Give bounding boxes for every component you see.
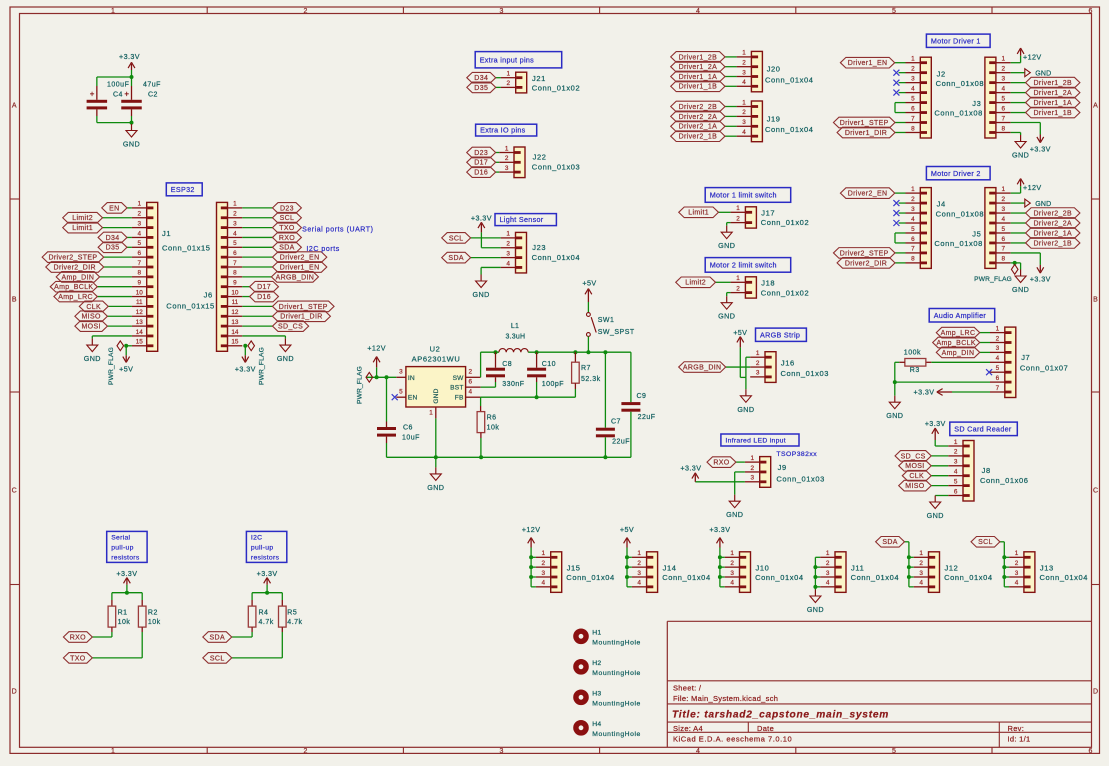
svg-text:3: 3 — [742, 119, 746, 126]
svg-text:D17: D17 — [474, 160, 488, 167]
svg-text:Driver2_2B: Driver2_2B — [1033, 210, 1072, 217]
svg-text:H2: H2 — [592, 660, 601, 667]
svg-text:Motor 2 limit switch: Motor 2 limit switch — [710, 261, 777, 270]
svg-text:Driver1_1B: Driver1_1B — [679, 84, 718, 91]
svg-text:Conn_01x08: Conn_01x08 — [936, 79, 985, 88]
svg-text:Light Sensor: Light Sensor — [500, 215, 544, 224]
svg-text:RXO: RXO — [279, 235, 295, 242]
svg-text:7: 7 — [233, 260, 237, 267]
svg-text:J14: J14 — [663, 563, 677, 572]
svg-text:+12V: +12V — [367, 344, 386, 353]
svg-text:Limit1: Limit1 — [72, 225, 93, 232]
svg-text:J15: J15 — [567, 563, 581, 572]
svg-text:GND: GND — [927, 511, 944, 520]
svg-text:+3.3V: +3.3V — [119, 52, 140, 61]
svg-text:J9: J9 — [778, 463, 787, 472]
svg-text:GND: GND — [84, 354, 101, 363]
svg-text:2: 2 — [138, 211, 142, 218]
svg-text:Driver1_EN: Driver1_EN — [280, 264, 320, 271]
svg-text:SCL: SCL — [978, 539, 993, 546]
svg-text:1: 1 — [138, 201, 142, 208]
svg-text:1: 1 — [233, 201, 237, 208]
svg-text:3: 3 — [506, 250, 510, 257]
svg-text:Limit2: Limit2 — [72, 215, 93, 222]
svg-text:KiCad E.D.A. eeschema 7.0.10: KiCad E.D.A. eeschema 7.0.10 — [673, 734, 792, 743]
svg-text:3.3uH: 3.3uH — [506, 334, 526, 341]
svg-text:4: 4 — [1015, 580, 1019, 587]
svg-text:MountingHole: MountingHole — [592, 731, 641, 738]
svg-text:D: D — [12, 689, 17, 696]
svg-text:GND: GND — [718, 241, 735, 250]
svg-text:1: 1 — [736, 205, 740, 212]
svg-text:Size: A4: Size: A4 — [673, 724, 703, 733]
svg-text:+5V: +5V — [119, 365, 133, 374]
svg-text:4: 4 — [1002, 216, 1006, 223]
svg-text:1: 1 — [111, 748, 115, 755]
svg-text:R2: R2 — [148, 609, 158, 616]
svg-text:D17: D17 — [257, 284, 271, 291]
svg-text:J23: J23 — [532, 243, 546, 252]
svg-text:7: 7 — [1002, 246, 1006, 253]
svg-text:C: C — [12, 488, 17, 495]
svg-text:D16: D16 — [257, 294, 271, 301]
svg-text:J13: J13 — [1040, 563, 1054, 572]
svg-text:2: 2 — [507, 80, 511, 87]
svg-text:1: 1 — [1002, 186, 1006, 193]
svg-text:3: 3 — [742, 69, 746, 76]
svg-text:SD Card Reader: SD Card Reader — [954, 424, 1012, 433]
svg-text:Extra IO pins: Extra IO pins — [480, 126, 526, 135]
svg-text:1: 1 — [742, 99, 746, 106]
svg-text:Amp_BCLK: Amp_BCLK — [54, 284, 93, 291]
svg-text:12: 12 — [231, 309, 239, 316]
svg-text:3: 3 — [1002, 206, 1006, 213]
svg-text:+: + — [124, 90, 129, 99]
svg-text:SCL: SCL — [280, 215, 295, 222]
svg-text:resistors: resistors — [251, 554, 280, 561]
svg-text:Conn_01x02: Conn_01x02 — [761, 218, 810, 227]
svg-text:Driver1_1B: Driver1_1B — [1033, 110, 1072, 117]
svg-text:3: 3 — [505, 165, 509, 172]
svg-text:Driver2_EN: Driver2_EN — [280, 255, 320, 262]
svg-text:8: 8 — [233, 270, 237, 277]
svg-text:R3: R3 — [910, 367, 920, 374]
svg-text:J20: J20 — [767, 65, 781, 74]
svg-text:SDA: SDA — [279, 245, 294, 252]
svg-text:J6: J6 — [204, 291, 213, 300]
svg-text:Conn_01x08: Conn_01x08 — [934, 108, 983, 117]
svg-text:R4: R4 — [259, 609, 269, 616]
svg-text:+3.3V: +3.3V — [471, 214, 492, 223]
svg-text:J5: J5 — [972, 229, 981, 238]
svg-text:C: C — [1093, 488, 1098, 495]
svg-text:ARGB_DIN: ARGB_DIN — [276, 274, 315, 281]
svg-text:+3.3V: +3.3V — [1030, 145, 1051, 154]
svg-text:6: 6 — [1089, 8, 1093, 15]
svg-text:Driver1_2A: Driver1_2A — [1033, 90, 1072, 97]
svg-text:RXO: RXO — [713, 460, 729, 467]
svg-text:Driver2_STEP: Driver2_STEP — [48, 255, 97, 262]
svg-text:6: 6 — [996, 375, 1000, 382]
svg-text:2: 2 — [751, 465, 755, 472]
svg-text:SCL: SCL — [210, 655, 225, 662]
svg-text:J19: J19 — [767, 114, 781, 123]
svg-text:2: 2 — [1002, 196, 1006, 203]
svg-text:pull-up: pull-up — [111, 545, 134, 552]
svg-text:MOSI: MOSI — [905, 463, 924, 470]
svg-text:BST: BST — [450, 385, 463, 392]
svg-text:Driver2_2B: Driver2_2B — [679, 104, 718, 111]
svg-text:GND: GND — [1035, 71, 1051, 78]
svg-text:Driver1_DIR: Driver1_DIR — [280, 314, 322, 321]
svg-text:5: 5 — [233, 240, 237, 247]
svg-text:4.7k: 4.7k — [259, 619, 274, 626]
svg-text:C7: C7 — [611, 418, 621, 425]
svg-text:3: 3 — [399, 369, 403, 376]
svg-text:100uF: 100uF — [107, 82, 129, 89]
svg-text:2: 2 — [1015, 560, 1019, 567]
svg-text:Driver2_2A: Driver2_2A — [679, 114, 718, 121]
svg-text:ARGB_DIN: ARGB_DIN — [683, 364, 722, 371]
svg-text:C10: C10 — [542, 361, 556, 368]
svg-text:1: 1 — [1015, 550, 1019, 557]
svg-text:GND: GND — [726, 510, 743, 519]
svg-text:4: 4 — [954, 469, 958, 476]
svg-text:Audio Amplifier: Audio Amplifier — [934, 311, 987, 320]
svg-text:Extra input pins: Extra input pins — [480, 55, 534, 64]
svg-text:U2: U2 — [430, 345, 441, 354]
svg-text:MountingHole: MountingHole — [592, 670, 641, 677]
svg-text:4: 4 — [542, 580, 546, 587]
svg-text:3: 3 — [138, 220, 142, 227]
svg-text:3: 3 — [826, 570, 830, 577]
svg-text:J3: J3 — [972, 99, 981, 108]
svg-text:J11: J11 — [851, 563, 864, 572]
svg-text:Motor Driver 2: Motor Driver 2 — [931, 169, 981, 178]
svg-text:J17: J17 — [761, 208, 775, 217]
svg-text:4: 4 — [996, 355, 1000, 362]
svg-text:2: 2 — [304, 748, 308, 755]
svg-text:4: 4 — [1002, 85, 1006, 92]
svg-text:H4: H4 — [592, 721, 601, 728]
svg-text:+3.3V: +3.3V — [914, 388, 935, 397]
svg-text:Driver1_2A: Driver1_2A — [679, 64, 718, 71]
svg-text:10: 10 — [136, 289, 144, 296]
svg-text:Motor 1 limit switch: Motor 1 limit switch — [710, 191, 777, 200]
svg-text:Conn_01x04: Conn_01x04 — [944, 573, 993, 582]
svg-text:3: 3 — [1015, 570, 1019, 577]
svg-text:R7: R7 — [581, 365, 591, 372]
svg-text:5: 5 — [1002, 226, 1006, 233]
svg-text:Conn_01x04: Conn_01x04 — [662, 573, 711, 582]
svg-text:GND: GND — [427, 483, 444, 492]
svg-text:22uF: 22uF — [612, 438, 630, 445]
svg-text:AP62301WU: AP62301WU — [412, 355, 461, 364]
svg-text:4: 4 — [138, 230, 142, 237]
svg-text:Driver1_EN: Driver1_EN — [848, 60, 888, 67]
svg-text:A: A — [1093, 103, 1098, 110]
svg-text:4: 4 — [919, 580, 923, 587]
svg-text:Conn_01x02: Conn_01x02 — [761, 289, 810, 298]
svg-text:4: 4 — [911, 85, 915, 92]
svg-text:6: 6 — [954, 488, 958, 495]
svg-text:PWR_FLAG: PWR_FLAG — [259, 347, 266, 385]
svg-text:+: + — [90, 90, 95, 99]
svg-text:6: 6 — [911, 105, 915, 112]
svg-text:10k: 10k — [148, 619, 161, 626]
svg-text:L1: L1 — [511, 323, 519, 330]
svg-text:J2: J2 — [937, 69, 946, 78]
svg-text:14: 14 — [136, 329, 144, 336]
svg-text:2: 2 — [736, 215, 740, 222]
svg-text:Conn_01x04: Conn_01x04 — [765, 76, 814, 85]
svg-text:MOSI: MOSI — [81, 324, 100, 331]
svg-text:File: Main_System.kicad_sch: File: Main_System.kicad_sch — [673, 694, 778, 703]
svg-text:resistors: resistors — [111, 554, 140, 561]
svg-text:Conn_01x04: Conn_01x04 — [566, 573, 615, 582]
svg-text:Driver2_EN: Driver2_EN — [848, 191, 888, 198]
svg-text:3: 3 — [637, 570, 641, 577]
svg-text:1: 1 — [506, 231, 510, 238]
svg-text:1: 1 — [919, 550, 923, 557]
svg-text:4: 4 — [742, 129, 746, 136]
svg-text:Motor Driver 1: Motor Driver 1 — [931, 36, 981, 45]
svg-text:13: 13 — [231, 319, 239, 326]
svg-text:EN: EN — [109, 205, 119, 212]
svg-text:7: 7 — [911, 246, 915, 253]
svg-text:3: 3 — [1002, 75, 1006, 82]
svg-text:J1: J1 — [162, 229, 171, 238]
svg-text:5: 5 — [954, 478, 958, 485]
svg-text:Conn_01x04: Conn_01x04 — [532, 253, 581, 262]
svg-text:R5: R5 — [287, 609, 297, 616]
svg-text:GND: GND — [277, 354, 294, 363]
svg-text:3: 3 — [542, 570, 546, 577]
svg-text:pull-up: pull-up — [251, 545, 274, 552]
svg-text:+12V: +12V — [1023, 183, 1042, 192]
svg-text:8: 8 — [1002, 256, 1006, 263]
svg-text:330nF: 330nF — [502, 381, 524, 388]
svg-text:Conn_01x06: Conn_01x06 — [980, 476, 1029, 485]
svg-text:Date: Date — [757, 724, 774, 733]
svg-text:TXO: TXO — [70, 655, 86, 662]
svg-text:Conn_01x03: Conn_01x03 — [781, 369, 830, 378]
svg-text:1: 1 — [542, 550, 546, 557]
svg-text:C8: C8 — [502, 361, 512, 368]
svg-text:+3.3V: +3.3V — [257, 569, 278, 578]
svg-text:D35: D35 — [474, 85, 488, 92]
svg-text:GND: GND — [1012, 151, 1029, 160]
svg-text:5: 5 — [996, 365, 1000, 372]
svg-text:3: 3 — [233, 220, 237, 227]
svg-text:1: 1 — [637, 550, 641, 557]
svg-text:+5V: +5V — [582, 279, 596, 288]
svg-text:SW_SPST: SW_SPST — [598, 329, 635, 336]
svg-text:1: 1 — [742, 50, 746, 57]
svg-text:Driver2_1A: Driver2_1A — [679, 124, 718, 131]
svg-text:3: 3 — [751, 475, 755, 482]
svg-text:9: 9 — [138, 280, 142, 287]
svg-text:Conn_01x07: Conn_01x07 — [1020, 364, 1069, 373]
svg-text:4: 4 — [730, 580, 734, 587]
svg-text:C9: C9 — [637, 393, 647, 400]
svg-text:Conn_01x04: Conn_01x04 — [755, 573, 804, 582]
svg-text:4: 4 — [911, 216, 915, 223]
svg-text:10uF: 10uF — [402, 435, 420, 442]
svg-text:IN: IN — [408, 375, 415, 382]
svg-text:Conn_01x04: Conn_01x04 — [1040, 573, 1089, 582]
svg-text:C6: C6 — [403, 425, 413, 432]
svg-text:GND: GND — [718, 312, 735, 321]
svg-text:J21: J21 — [532, 74, 546, 83]
svg-text:3: 3 — [500, 8, 504, 15]
svg-text:Conn_01x15: Conn_01x15 — [166, 301, 215, 310]
svg-text:6: 6 — [911, 236, 915, 243]
svg-text:H1: H1 — [592, 630, 601, 637]
svg-text:Driver2_STEP: Driver2_STEP — [840, 250, 889, 257]
svg-text:4: 4 — [233, 230, 237, 237]
svg-text:2: 2 — [542, 560, 546, 567]
svg-text:6: 6 — [1002, 105, 1006, 112]
svg-text:6: 6 — [469, 379, 473, 386]
svg-text:SDA: SDA — [448, 255, 463, 262]
svg-text:Driver2_DIR: Driver2_DIR — [54, 264, 96, 271]
svg-text:8: 8 — [1002, 125, 1006, 132]
svg-text:Amp_LRC: Amp_LRC — [58, 294, 93, 301]
svg-text:1: 1 — [736, 275, 740, 282]
svg-text:4: 4 — [637, 580, 641, 587]
svg-text:Serial ports (UART): Serial ports (UART) — [302, 227, 373, 234]
svg-text:10k: 10k — [118, 619, 131, 626]
svg-text:Rev:: Rev: — [1008, 724, 1025, 733]
svg-text:22uF: 22uF — [638, 414, 656, 421]
svg-text:52.3k: 52.3k — [581, 376, 601, 383]
svg-text:GND: GND — [807, 605, 824, 614]
svg-text:C4: C4 — [113, 91, 123, 98]
svg-text:J7: J7 — [1021, 353, 1030, 362]
svg-text:Driver1_STEP: Driver1_STEP — [840, 120, 889, 127]
svg-text:5: 5 — [1002, 95, 1006, 102]
svg-text:5: 5 — [911, 95, 915, 102]
svg-text:Serial: Serial — [111, 535, 130, 542]
svg-text:2: 2 — [756, 360, 760, 367]
svg-text:Conn_01x04: Conn_01x04 — [851, 573, 900, 582]
svg-text:Title: tarshad2_capstone_main_: Title: tarshad2_capstone_main_system — [672, 710, 889, 721]
svg-text:+3.3V: +3.3V — [116, 569, 137, 578]
svg-text:Limit1: Limit1 — [688, 210, 709, 217]
svg-text:15: 15 — [231, 339, 239, 346]
svg-text:Conn_01x04: Conn_01x04 — [765, 125, 814, 134]
svg-text:4: 4 — [696, 8, 700, 15]
svg-text:2: 2 — [911, 196, 915, 203]
svg-text:7: 7 — [138, 260, 142, 267]
svg-text:J16: J16 — [781, 359, 795, 368]
svg-text:4: 4 — [742, 79, 746, 86]
svg-text:1: 1 — [826, 550, 830, 557]
svg-text:Driver2_1A: Driver2_1A — [1033, 230, 1072, 237]
svg-text:Driver1_2B: Driver1_2B — [679, 54, 718, 61]
svg-text:Driver2_1B: Driver2_1B — [1033, 240, 1072, 247]
svg-text:R1: R1 — [118, 609, 128, 616]
svg-text:3: 3 — [500, 748, 504, 755]
svg-text:A: A — [12, 103, 17, 110]
svg-text:SD_CS: SD_CS — [901, 453, 926, 460]
svg-text:J8: J8 — [982, 466, 991, 475]
svg-text:5: 5 — [399, 389, 403, 396]
svg-text:D16: D16 — [474, 170, 488, 177]
svg-text:2: 2 — [730, 560, 734, 567]
svg-text:2: 2 — [469, 369, 473, 376]
svg-text:R6: R6 — [487, 415, 497, 422]
svg-text:3: 3 — [756, 370, 760, 377]
svg-text:3: 3 — [730, 570, 734, 577]
svg-text:4: 4 — [506, 260, 510, 267]
svg-text:Amp_LRC: Amp_LRC — [941, 330, 976, 337]
svg-text:3: 3 — [919, 570, 923, 577]
svg-text:1: 1 — [996, 325, 1000, 332]
svg-text:1: 1 — [505, 145, 509, 152]
svg-text:2: 2 — [505, 155, 509, 162]
svg-text:Driver1_DIR: Driver1_DIR — [845, 130, 887, 137]
svg-text:D34: D34 — [106, 235, 120, 242]
svg-text:Driver1_1A: Driver1_1A — [1033, 100, 1072, 107]
svg-text:TXO: TXO — [279, 225, 295, 232]
svg-text:1: 1 — [756, 350, 760, 357]
svg-text:2: 2 — [637, 560, 641, 567]
svg-text:+12V: +12V — [1023, 53, 1042, 62]
svg-text:5: 5 — [138, 240, 142, 247]
svg-text:2: 2 — [1002, 65, 1006, 72]
svg-text:2: 2 — [233, 211, 237, 218]
svg-text:3: 3 — [911, 206, 915, 213]
svg-text:12: 12 — [136, 309, 144, 316]
svg-text:5: 5 — [892, 8, 896, 15]
svg-text:ARGB Strip: ARGB Strip — [760, 330, 800, 339]
svg-text:100pF: 100pF — [542, 381, 564, 388]
svg-text:CLK: CLK — [909, 473, 924, 480]
svg-text:C2: C2 — [148, 91, 158, 98]
svg-text:GND: GND — [1012, 285, 1029, 294]
svg-text:Sheet: /: Sheet: / — [673, 684, 702, 693]
svg-text:Conn_01x02: Conn_01x02 — [532, 84, 581, 93]
svg-text:1: 1 — [730, 550, 734, 557]
svg-text:GND: GND — [473, 290, 490, 299]
svg-text:1: 1 — [507, 71, 511, 78]
svg-text:GND: GND — [123, 140, 140, 149]
svg-text:1: 1 — [911, 186, 915, 193]
svg-text:MISO: MISO — [905, 483, 924, 490]
svg-text:Conn_01x15: Conn_01x15 — [162, 244, 211, 253]
svg-text:B: B — [1093, 297, 1098, 304]
svg-text:100k: 100k — [904, 349, 921, 356]
svg-text:2: 2 — [996, 335, 1000, 342]
svg-text:2: 2 — [742, 109, 746, 116]
svg-text:8: 8 — [911, 256, 915, 263]
svg-text:Driver2_1B: Driver2_1B — [679, 134, 718, 141]
svg-text:+5V: +5V — [620, 525, 634, 534]
svg-text:J10: J10 — [756, 563, 770, 572]
svg-text:1: 1 — [1002, 56, 1006, 63]
svg-text:D23: D23 — [280, 205, 294, 212]
svg-text:1: 1 — [111, 8, 115, 15]
svg-text:6: 6 — [1002, 236, 1006, 243]
svg-text:H3: H3 — [592, 691, 601, 698]
svg-text:J4: J4 — [937, 200, 946, 209]
svg-text:Infrared LED input: Infrared LED input — [725, 438, 786, 445]
svg-text:8: 8 — [138, 270, 142, 277]
svg-text:SDA: SDA — [210, 634, 225, 641]
svg-text:2: 2 — [736, 285, 740, 292]
